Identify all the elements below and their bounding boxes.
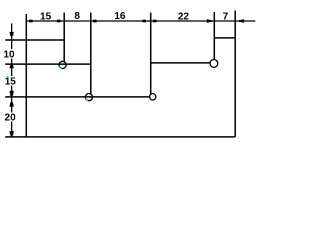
svg-text:16: 16 — [114, 11, 126, 22]
svg-text:22: 22 — [178, 12, 190, 23]
svg-text:10: 10 — [3, 49, 15, 60]
svg-text:7: 7 — [223, 11, 229, 22]
svg-text:15: 15 — [5, 77, 17, 88]
svg-text:8: 8 — [74, 11, 80, 22]
svg-text:15: 15 — [40, 11, 52, 22]
svg-text:20: 20 — [5, 113, 17, 124]
